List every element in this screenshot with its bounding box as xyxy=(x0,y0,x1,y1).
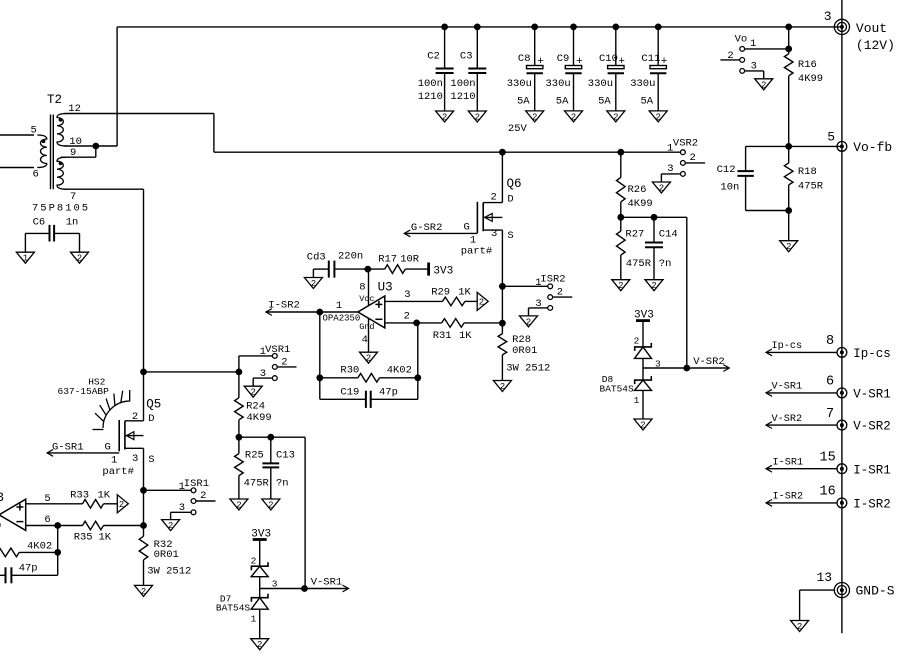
ground C10 xyxy=(607,111,625,123)
svg-text:+: + xyxy=(661,56,668,68)
svg-text:R29: R29 xyxy=(431,287,450,299)
svg-text:D: D xyxy=(148,413,154,425)
svg-text:2: 2 xyxy=(500,382,505,392)
svg-text:5: 5 xyxy=(31,124,37,136)
svg-text:3: 3 xyxy=(272,578,278,589)
ground C9 xyxy=(565,111,583,123)
svg-text:3: 3 xyxy=(751,61,757,73)
svg-text:2: 2 xyxy=(571,112,576,122)
node ISR2 tap on Q6 source xyxy=(500,283,506,289)
svg-text:4K02: 4K02 xyxy=(387,365,412,377)
node C10 top xyxy=(613,24,619,30)
svg-text:10n: 10n xyxy=(720,181,739,193)
capacitor C19 47p xyxy=(320,386,418,408)
svg-text:C2: C2 xyxy=(427,51,440,63)
svg-text:6: 6 xyxy=(33,169,39,181)
wire T2 pin10 xyxy=(65,145,118,147)
svg-text:C12: C12 xyxy=(717,164,736,176)
svg-text:5A: 5A xyxy=(641,96,654,108)
node C3 top xyxy=(474,24,480,30)
node C9 top xyxy=(571,24,577,30)
ground C6 pin2 xyxy=(71,252,89,264)
svg-text:2: 2 xyxy=(557,287,563,299)
svg-text:0R01: 0R01 xyxy=(512,345,537,357)
capacitor C10 330u 5A xyxy=(588,27,625,111)
ground C8 xyxy=(526,111,544,123)
ground VSR1 pin3 xyxy=(244,386,262,398)
svg-text:Vout: Vout xyxy=(856,21,887,36)
svg-text:R16: R16 xyxy=(798,59,817,71)
svg-text:G: G xyxy=(464,222,470,234)
node C13 top xyxy=(268,434,274,440)
wire Vout drop to T2 pin 10 xyxy=(116,27,118,146)
resistor R27 475R xyxy=(617,217,652,279)
svg-text:8: 8 xyxy=(826,334,834,349)
svg-text:3: 3 xyxy=(404,289,410,301)
svg-text:1n: 1n xyxy=(66,217,79,229)
svg-text:I-SR1: I-SR1 xyxy=(853,463,891,477)
capacitor C8 330u 5A xyxy=(507,27,544,111)
wire T2 pin6 stub xyxy=(0,167,34,169)
svg-text:330u: 330u xyxy=(507,78,532,90)
svg-text:5: 5 xyxy=(44,493,50,505)
capacitor C13 ?n xyxy=(262,437,295,499)
svg-text:G: G xyxy=(105,441,111,453)
svg-text:330u: 330u xyxy=(546,78,571,90)
node V-SR1 junction xyxy=(302,586,308,592)
svg-text:OPA2350: OPA2350 xyxy=(323,314,361,324)
svg-text:3: 3 xyxy=(0,491,4,505)
svg-text:7: 7 xyxy=(70,191,76,203)
wire T2 pin9 step xyxy=(61,146,96,157)
svg-text:0R01: 0R01 xyxy=(154,549,179,561)
svg-text:2: 2 xyxy=(141,587,146,597)
ground R28 xyxy=(493,381,511,393)
testpoint VSR2 xyxy=(661,137,705,182)
svg-text:1: 1 xyxy=(535,277,541,289)
svg-text:1: 1 xyxy=(260,346,266,358)
svg-text:?n: ?n xyxy=(659,258,672,270)
capacitor C3 100n 1210 xyxy=(450,27,486,111)
node C2 top xyxy=(442,24,448,30)
wire D8 node to V-SR2 xyxy=(643,367,687,369)
svg-text:?n: ?n xyxy=(276,478,289,490)
node U3b pin6 junction xyxy=(55,523,61,529)
node VSR2 net R26 junction xyxy=(618,149,624,155)
svg-text:R33: R33 xyxy=(70,489,89,501)
svg-text:V-SR2: V-SR2 xyxy=(693,356,725,368)
svg-text:Q6: Q6 xyxy=(507,177,522,191)
node V-SR2 junction xyxy=(684,365,690,371)
testpoint VSR1 xyxy=(239,344,297,386)
svg-text:Gnd: Gnd xyxy=(359,322,374,332)
svg-text:R18: R18 xyxy=(798,166,817,178)
node R25 top xyxy=(236,434,242,440)
svg-text:Vcc: Vcc xyxy=(359,294,374,304)
svg-text:1: 1 xyxy=(23,254,28,264)
svg-text:8: 8 xyxy=(359,281,365,293)
ground R18 xyxy=(780,241,798,253)
wire R26 bottom rail xyxy=(621,217,687,368)
svg-text:6: 6 xyxy=(826,375,834,390)
svg-text:2: 2 xyxy=(634,336,640,347)
resistor R28 0R01 3W 2512 xyxy=(498,323,550,380)
svg-text:1: 1 xyxy=(667,143,673,155)
svg-text:2: 2 xyxy=(200,490,206,502)
ground Cd3 xyxy=(304,278,322,290)
label 25V xyxy=(508,123,528,135)
node R31 junction on Q6 source xyxy=(500,320,506,326)
connector pin 8 Ip-cs xyxy=(766,334,891,361)
resistor R26 4K99 xyxy=(617,152,653,217)
svg-text:S: S xyxy=(148,454,154,466)
svg-text:1: 1 xyxy=(179,481,185,493)
node R27 top xyxy=(618,214,624,220)
svg-text:G-SR2: G-SR2 xyxy=(411,222,443,234)
svg-text:25V: 25V xyxy=(508,123,528,135)
svg-text:10R: 10R xyxy=(400,254,420,266)
svg-text:9: 9 xyxy=(70,147,76,159)
wire U3b feedback rail xyxy=(57,526,59,576)
resistor R25 475R xyxy=(235,437,270,499)
resistor R30 4K02 xyxy=(320,365,418,382)
node R18-C12 bottom junction xyxy=(786,208,792,214)
node ISR1 tap on Q5 source xyxy=(141,487,147,493)
diode D7 BAT54S xyxy=(216,528,278,638)
svg-text:16: 16 xyxy=(820,485,836,500)
testpoint Vo xyxy=(720,34,788,79)
node Vo-fb R18 junction xyxy=(786,144,792,150)
svg-text:Vo: Vo xyxy=(735,34,748,46)
wire feedback left rail xyxy=(319,312,321,399)
svg-text:2: 2 xyxy=(727,50,733,62)
svg-text:3: 3 xyxy=(824,9,832,24)
svg-text:3V3: 3V3 xyxy=(433,265,453,277)
ground R33 sideways xyxy=(117,495,128,513)
capacitor C14 ?n xyxy=(645,217,678,279)
wire right connector rail xyxy=(841,0,843,633)
resistor R24 4K99 xyxy=(235,372,272,437)
svg-text:2: 2 xyxy=(132,411,138,423)
svg-text:R30: R30 xyxy=(340,365,359,377)
svg-text:R17: R17 xyxy=(378,254,397,266)
svg-text:13: 13 xyxy=(817,570,833,585)
transistor Q5 with G-SR1 gate arrow xyxy=(47,398,161,526)
svg-text:R25: R25 xyxy=(245,450,264,462)
resistor R35 1K xyxy=(74,521,144,543)
svg-text:2: 2 xyxy=(479,298,484,308)
svg-text:3: 3 xyxy=(132,453,138,465)
ground C11 xyxy=(649,111,667,123)
capacitor 47p feedback xyxy=(0,563,58,584)
svg-text:2: 2 xyxy=(786,242,791,252)
svg-text:3W 2512: 3W 2512 xyxy=(147,566,191,578)
svg-text:1K: 1K xyxy=(99,532,112,544)
heatsink HS2 637-15ABP xyxy=(58,376,131,429)
ground GND-S xyxy=(791,621,809,633)
wire R18 ground lead xyxy=(788,211,790,241)
svg-text:2: 2 xyxy=(690,152,696,164)
node C8 top xyxy=(532,24,538,30)
svg-text:2: 2 xyxy=(119,500,124,510)
testpoint ISR2 xyxy=(502,274,572,316)
svg-text:2: 2 xyxy=(640,421,645,431)
svg-text:3: 3 xyxy=(535,298,541,310)
ground D7 xyxy=(251,639,269,651)
svg-text:2: 2 xyxy=(281,357,287,369)
svg-text:C14: C14 xyxy=(659,228,678,240)
ground D8 xyxy=(634,419,652,431)
svg-text:2: 2 xyxy=(168,521,173,531)
capacitor C11 330u 5A xyxy=(630,27,667,111)
svg-text:4: 4 xyxy=(362,334,368,346)
ground VSR2 pin3 xyxy=(652,182,670,194)
svg-text:2: 2 xyxy=(613,112,618,122)
svg-text:3: 3 xyxy=(667,163,673,175)
resistor R32 0R01 3W 2512 xyxy=(139,526,191,586)
svg-text:2: 2 xyxy=(655,112,660,122)
connector pin 6 V-SR1 xyxy=(766,375,891,402)
capacitor C12 10n xyxy=(717,146,789,210)
svg-text:C8: C8 xyxy=(518,53,531,65)
transistor Q6 with G-SR2 gate arrow xyxy=(404,152,521,323)
node VSR1 R24 junction xyxy=(236,369,242,375)
wire VSR1 Q5 drain tap xyxy=(144,371,239,373)
svg-text:R35: R35 xyxy=(74,532,93,544)
node R30 left xyxy=(317,375,323,381)
svg-text:2: 2 xyxy=(442,113,447,123)
ground C13 xyxy=(262,499,280,511)
ground R29 sideways xyxy=(477,292,488,310)
svg-text:ISR2: ISR2 xyxy=(540,274,565,286)
svg-text:5: 5 xyxy=(827,129,835,144)
svg-text:VSR2: VSR2 xyxy=(673,137,698,149)
svg-text:+: + xyxy=(618,56,625,68)
svg-text:+: + xyxy=(576,56,583,68)
svg-text:I-SR2: I-SR2 xyxy=(268,300,300,312)
svg-text:100n: 100n xyxy=(418,78,443,90)
svg-text:3W 2512: 3W 2512 xyxy=(506,362,550,374)
connector pin 7 V-SR2 xyxy=(766,407,891,434)
svg-text:2: 2 xyxy=(257,640,262,650)
svg-text:220n: 220n xyxy=(338,251,363,263)
svg-text:637-15ABP: 637-15ABP xyxy=(58,386,110,397)
svg-text:75P8105: 75P8105 xyxy=(32,203,90,215)
op-amp U3 second half xyxy=(0,491,83,531)
svg-text:2: 2 xyxy=(236,501,241,511)
ground ISR1 pin3 xyxy=(162,520,180,532)
node U3 output feedback junction xyxy=(317,309,323,315)
resistor R16 4K99 xyxy=(784,27,823,146)
svg-text:2: 2 xyxy=(251,555,257,566)
svg-text:C9: C9 xyxy=(557,53,570,65)
svg-text:V-SR2: V-SR2 xyxy=(853,420,891,434)
svg-text:2: 2 xyxy=(651,281,656,291)
svg-text:D: D xyxy=(507,193,513,205)
node C14 top xyxy=(651,214,657,220)
svg-text:1K: 1K xyxy=(458,287,471,299)
net label V-SR1 arrow xyxy=(305,577,349,592)
svg-text:2: 2 xyxy=(268,501,273,511)
svg-text:1: 1 xyxy=(251,614,257,625)
svg-text:C13: C13 xyxy=(276,450,295,462)
wire T2 pin12 net to VSR2/Q6 xyxy=(65,114,681,153)
svg-text:1: 1 xyxy=(750,38,756,50)
svg-text:G-SR1: G-SR1 xyxy=(52,441,84,453)
node 4K02 junction xyxy=(55,550,61,556)
svg-text:+: + xyxy=(537,56,544,68)
ground R27 xyxy=(612,280,630,292)
wire T2 pin7 to Q5 drain xyxy=(65,189,144,421)
svg-text:V-SR2: V-SR2 xyxy=(772,414,803,425)
svg-text:U3: U3 xyxy=(378,280,393,294)
resistor R33 1K xyxy=(70,489,117,508)
node R35 junction on Q5 source xyxy=(141,523,147,529)
svg-text:2: 2 xyxy=(491,192,497,204)
svg-text:4K99: 4K99 xyxy=(628,198,653,210)
svg-text:(12V): (12V) xyxy=(856,38,895,53)
resistor 4K02 feedback xyxy=(0,541,58,557)
testpoint ISR1 xyxy=(144,478,216,520)
svg-text:I-SR1: I-SR1 xyxy=(773,457,804,468)
svg-text:2: 2 xyxy=(532,112,537,122)
svg-text:part#: part# xyxy=(102,466,134,478)
svg-text:C11: C11 xyxy=(641,53,660,65)
transformer T2 75P8105 xyxy=(31,93,91,215)
ground C3 xyxy=(468,111,486,123)
svg-text:Ip-cs: Ip-cs xyxy=(772,341,803,352)
resistor R17 10R to 3V3 xyxy=(378,254,453,278)
svg-text:3: 3 xyxy=(260,368,266,380)
resistor R18 475R xyxy=(784,146,823,210)
capacitor Cd3 220n xyxy=(307,251,385,278)
node R16 top bus xyxy=(786,24,792,30)
svg-text:4K02: 4K02 xyxy=(27,541,52,553)
svg-text:1210: 1210 xyxy=(418,91,443,103)
svg-text:5A: 5A xyxy=(517,96,530,108)
ground ISR2 pin3 xyxy=(520,316,538,328)
svg-text:Cd3: Cd3 xyxy=(307,252,326,264)
svg-text:2: 2 xyxy=(526,317,531,327)
ground R25 xyxy=(230,499,248,511)
node Vo-R16 junction xyxy=(786,46,792,52)
resistor R29 1K xyxy=(431,287,477,306)
svg-text:475R: 475R xyxy=(626,258,652,270)
connector pin 13 GND-S xyxy=(800,570,895,621)
svg-text:T2: T2 xyxy=(47,93,62,107)
connector pin 16 I-SR2 xyxy=(766,485,891,512)
svg-text:Vo-fb: Vo-fb xyxy=(853,140,892,155)
svg-text:C6: C6 xyxy=(33,217,46,229)
svg-text:C10: C10 xyxy=(599,53,618,65)
svg-text:I-SR2: I-SR2 xyxy=(853,498,891,512)
svg-text:100n: 100n xyxy=(450,78,475,90)
svg-text:2: 2 xyxy=(618,281,623,291)
svg-text:2: 2 xyxy=(250,388,255,398)
ground U3 pin4 xyxy=(360,352,378,364)
svg-text:3: 3 xyxy=(179,502,185,514)
capacitor C9 330u 5A xyxy=(546,27,583,111)
svg-text:2: 2 xyxy=(311,279,316,289)
svg-text:1210: 1210 xyxy=(450,91,475,103)
svg-text:475R: 475R xyxy=(244,478,270,490)
wire VSR1 riser xyxy=(238,356,240,372)
svg-text:2: 2 xyxy=(659,184,664,194)
svg-text:GND-S: GND-S xyxy=(856,584,895,599)
wire D7 node to V-SR1 xyxy=(260,588,305,590)
svg-text:475R: 475R xyxy=(798,181,824,193)
svg-text:Ip-cs: Ip-cs xyxy=(853,347,891,361)
connector pin 5 Vo-fb xyxy=(827,129,892,155)
capacitor C2 100n 1210 xyxy=(418,27,454,111)
svg-text:3: 3 xyxy=(491,228,497,240)
svg-text:C19: C19 xyxy=(340,386,359,398)
svg-text:2: 2 xyxy=(366,354,371,364)
svg-text:6: 6 xyxy=(44,514,50,526)
svg-text:BAT54S: BAT54S xyxy=(600,383,635,394)
svg-text:15: 15 xyxy=(820,451,836,466)
ground Vo pin3 xyxy=(755,79,773,91)
svg-text:3V3: 3V3 xyxy=(251,528,271,540)
node R31 feedback junction xyxy=(414,320,420,326)
svg-text:5A: 5A xyxy=(556,96,569,108)
connector pin 15 I-SR1 xyxy=(766,451,891,478)
svg-text:ISR1: ISR1 xyxy=(184,478,209,490)
svg-text:1: 1 xyxy=(336,300,342,312)
svg-text:V-SR1: V-SR1 xyxy=(311,577,343,589)
capacitor C6 1n xyxy=(25,217,79,253)
wire R24 bottom rail to V-SR1 xyxy=(239,437,305,589)
svg-text:R26: R26 xyxy=(628,184,647,196)
svg-text:VSR1: VSR1 xyxy=(265,344,290,356)
svg-text:V-SR1: V-SR1 xyxy=(853,388,891,402)
svg-text:4K99: 4K99 xyxy=(247,412,272,424)
ground C6 pin1 xyxy=(16,252,34,264)
svg-text:47p: 47p xyxy=(19,563,38,575)
svg-text:R31: R31 xyxy=(433,330,452,342)
wire Vout top bus xyxy=(117,26,842,28)
svg-text:R24: R24 xyxy=(246,400,265,412)
svg-text:2: 2 xyxy=(404,311,410,323)
node R30 right xyxy=(415,375,421,381)
svg-text:V-SR1: V-SR1 xyxy=(772,382,803,393)
ground C14 xyxy=(645,280,663,292)
resistor R31 1K xyxy=(433,319,503,342)
svg-text:BAT54S: BAT54S xyxy=(216,602,251,613)
svg-text:1K: 1K xyxy=(459,330,472,342)
svg-text:330u: 330u xyxy=(588,78,613,90)
svg-text:2: 2 xyxy=(797,622,802,632)
svg-text:7: 7 xyxy=(826,407,834,422)
diode D8 BAT54S xyxy=(600,309,662,419)
svg-text:Q5: Q5 xyxy=(146,398,161,412)
svg-text:2: 2 xyxy=(77,254,82,264)
connector pin 3 Vout xyxy=(824,9,895,53)
net label V-SR2 arrow xyxy=(687,356,730,371)
svg-text:2: 2 xyxy=(475,113,480,123)
node VSR2 net Q6 junction xyxy=(500,149,506,155)
svg-text:2: 2 xyxy=(761,80,766,90)
svg-text:1: 1 xyxy=(634,395,640,406)
ground R32 xyxy=(135,585,153,597)
svg-text:S: S xyxy=(507,230,513,242)
svg-text:1K: 1K xyxy=(98,489,111,501)
svg-text:47p: 47p xyxy=(379,386,398,398)
svg-text:part#: part# xyxy=(461,246,493,258)
wire feedback right rail xyxy=(417,323,419,399)
op-amp U3 OPA2350 xyxy=(266,269,443,352)
svg-text:R27: R27 xyxy=(625,228,644,240)
